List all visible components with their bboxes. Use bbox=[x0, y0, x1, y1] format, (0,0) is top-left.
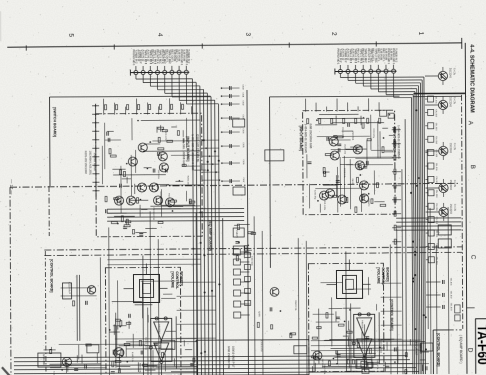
wire R2 bbox=[325, 171, 329, 173]
volume control board L opamp out bbox=[160, 363, 162, 375]
node busL 12 bbox=[192, 248, 194, 250]
capacitor CM2 bbox=[230, 94, 232, 98]
wire GV2v2 bbox=[331, 297, 333, 346]
node busR 8 bbox=[423, 314, 425, 316]
capacitor CV22 bbox=[337, 355, 341, 357]
node busL 14 bbox=[211, 290, 213, 292]
svg-text:PB OUT R 4: PB OUT R 4 bbox=[356, 48, 359, 63]
input board L pin node 2 bbox=[95, 113, 97, 115]
wire GV2v6 bbox=[348, 329, 350, 367]
wire GRv14 bbox=[339, 157, 341, 207]
resistor R35 bbox=[367, 139, 371, 141]
node L46 bbox=[149, 141, 151, 143]
wire GLh4 bbox=[171, 154, 200, 156]
connector CN307 bbox=[428, 176, 434, 182]
svg-text:4: 4 bbox=[156, 33, 163, 37]
wire drop v12 bbox=[429, 208, 432, 374]
wire GLv9 bbox=[139, 205, 141, 217]
volume control board R opamp out bbox=[363, 359, 365, 371]
capacitor CL42 bbox=[107, 132, 109, 136]
node M8 bbox=[221, 180, 223, 182]
svg-text:C600: C600 bbox=[241, 84, 243, 90]
wire GB1h2 bbox=[115, 338, 197, 340]
switch board outline top bbox=[50, 95, 211, 98]
capacitor C231 bbox=[86, 301, 88, 305]
left connector row CN101 pin 6 bbox=[170, 70, 174, 74]
wire right fan 6 run bbox=[379, 91, 415, 93]
node V21 bbox=[349, 309, 351, 311]
svg-text:BOARD]: BOARD] bbox=[385, 267, 389, 281]
svg-text:HA12017: HA12017 bbox=[361, 320, 364, 330]
left connector row CN101 pin 2 bbox=[141, 71, 145, 75]
wire GB2v1 bbox=[314, 363, 316, 372]
wire to CN301 bbox=[425, 98, 427, 100]
svg-text:CN-309: CN-309 bbox=[435, 203, 437, 211]
wire left fan-bus 1 bbox=[192, 79, 194, 375]
node M4 bbox=[221, 117, 223, 119]
node R3 bbox=[360, 174, 362, 176]
left border dash vertical bbox=[9, 187, 12, 375]
wire link hR1 bbox=[381, 282, 402, 284]
connector CNM7 bbox=[234, 312, 241, 318]
left connector row CN101 pin 1 bbox=[134, 71, 138, 75]
wire from Q301 dn bbox=[442, 81, 444, 85]
resistor V19 bbox=[126, 322, 130, 324]
wire right bus inner v2 bbox=[402, 169, 403, 374]
svg-text:R330 10k: R330 10k bbox=[138, 363, 140, 373]
node busL 6 bbox=[204, 351, 206, 353]
wire GRh9 bbox=[385, 151, 393, 153]
wire GRv12 bbox=[370, 115, 372, 150]
input board L pin tick 3 bbox=[92, 122, 99, 124]
wire drop v4 bbox=[157, 239, 160, 375]
wire right fan-bus 7 bbox=[413, 95, 414, 375]
resistor ML5 bbox=[290, 333, 292, 337]
right connector row CN201 pin 7 bbox=[384, 69, 388, 73]
wire GB1h5 bbox=[126, 341, 197, 343]
transistor Q106 bbox=[149, 183, 158, 192]
resistor V27 bbox=[312, 337, 317, 339]
right connector row CN201 pin 8 bbox=[392, 69, 396, 73]
resistor RB1 bbox=[394, 127, 396, 132]
volume control board R opamp box bbox=[354, 314, 375, 357]
node busL 11 bbox=[204, 291, 206, 293]
dash-dot control line lower bbox=[44, 252, 462, 255]
wire stub mid 7 bbox=[222, 162, 240, 164]
svg-text:AUX IN 12: AUX IN 12 bbox=[341, 48, 344, 60]
resistor L32 bbox=[167, 140, 173, 142]
connector CN304 bbox=[428, 136, 434, 142]
wire V219 bbox=[348, 321, 350, 330]
node L35 bbox=[116, 199, 118, 201]
relay RY302 bbox=[438, 239, 451, 248]
svg-text:C605: C605 bbox=[242, 142, 244, 148]
wire GRv2 bbox=[379, 131, 381, 158]
wire board link 6 bbox=[202, 179, 219, 181]
op-amp U2A bbox=[357, 318, 372, 337]
svg-text:[SWITCH BOARD]: [SWITCH BOARD] bbox=[53, 107, 57, 137]
left connector row CN101 pin 5 bbox=[163, 70, 167, 74]
wire GB2v7 bbox=[366, 337, 368, 355]
resistor RT4 bbox=[138, 105, 140, 110]
wire eq bus right h1 bbox=[396, 217, 461, 219]
wire V117 bbox=[109, 331, 119, 333]
resistor ML7 bbox=[271, 325, 273, 329]
ruler tick x=115 bbox=[113, 44, 115, 49]
wire link h2 bbox=[177, 295, 216, 297]
wire CNM2 bbox=[240, 261, 249, 263]
wire GRv6 bbox=[360, 189, 362, 212]
tone box TN2 bbox=[368, 362, 373, 367]
node L19 bbox=[126, 163, 128, 165]
wire to Q303 bbox=[425, 150, 438, 152]
svg-text:GND 806: GND 806 bbox=[42, 354, 46, 365]
node busR 14 bbox=[425, 348, 427, 350]
right board dash-dot vertical bbox=[462, 95, 463, 329]
wire GLh3 bbox=[162, 204, 195, 206]
svg-text:C103 100/16: C103 100/16 bbox=[152, 207, 154, 220]
node busL 8 bbox=[214, 150, 216, 152]
wire drop v5 bbox=[195, 212, 198, 375]
volume control board R pot lead top bbox=[348, 259, 350, 270]
wire pair left b bbox=[78, 275, 80, 341]
connector CNN5 bbox=[245, 300, 251, 305]
wire right fan 3 drop bbox=[355, 73, 357, 83]
wire bottom bus h4 bbox=[14, 368, 416, 370]
volume control board R node top2 bbox=[367, 313, 370, 316]
capacitor CB216 bbox=[365, 337, 369, 339]
svg-text:CN-310: CN-310 bbox=[435, 217, 437, 225]
dash-dot control line upper bbox=[44, 247, 462, 250]
wire left fan-bus 7 bbox=[215, 100, 216, 375]
svg-text:SUB IN 86: SUB IN 86 bbox=[379, 48, 382, 60]
wire stub into board L 4 bbox=[136, 99, 138, 115]
svg-text:CN-308: CN-308 bbox=[435, 190, 437, 198]
wire lower link right h1 bbox=[311, 339, 421, 342]
svg-text:2: 2 bbox=[330, 32, 337, 36]
svg-text:R 4.7k: R 4.7k bbox=[453, 97, 456, 105]
input board L pin node 3 bbox=[95, 122, 97, 124]
wire right fan 1 drop bbox=[339, 73, 341, 77]
wire drop v3 bbox=[149, 211, 152, 375]
node busR 11 bbox=[416, 109, 418, 111]
wire GRh13 bbox=[331, 148, 360, 150]
wire GRv3 bbox=[373, 170, 375, 194]
resistor AX9 bbox=[251, 232, 256, 234]
terminal block TB5 bbox=[421, 343, 433, 351]
resistor B111 bbox=[121, 350, 123, 355]
wire link h5 bbox=[177, 337, 216, 339]
resistor R28 bbox=[380, 204, 386, 206]
svg-text:C602: C602 bbox=[242, 100, 244, 106]
svg-text:4-4. SCHEMATIC DIAGRAM: 4-4. SCHEMATIC DIAGRAM bbox=[468, 44, 474, 113]
resistor LE10 bbox=[126, 219, 128, 225]
wire GV2h6 bbox=[343, 307, 361, 309]
resistor LE3 bbox=[133, 229, 135, 234]
wire GLv11 bbox=[130, 155, 132, 196]
wire GB1h7 bbox=[59, 343, 145, 345]
connector CNM5 bbox=[234, 290, 241, 296]
svg-text:CN-301: CN-301 bbox=[435, 96, 437, 104]
resistor RT6 bbox=[160, 104, 162, 109]
wire GV2h3 bbox=[316, 321, 340, 323]
transistor Q302 bbox=[438, 100, 447, 109]
aux switch box2 bbox=[233, 246, 244, 254]
svg-text:CN-302: CN-302 bbox=[435, 109, 437, 117]
switch block SW201 bbox=[233, 119, 245, 127]
wire R20 bbox=[328, 183, 335, 185]
wire GV2h7 bbox=[348, 288, 371, 290]
right connector row CN201 pin 4 bbox=[361, 69, 365, 73]
resistor B26 bbox=[352, 359, 354, 364]
control board L dash-dot left bbox=[44, 251, 47, 373]
wire GB2v10 bbox=[386, 341, 388, 350]
svg-text:R101 4.7k: R101 4.7k bbox=[168, 193, 170, 204]
volume control board L pot inner bbox=[139, 279, 153, 297]
volume control board L pot wiper box bbox=[143, 283, 151, 293]
connector CNM3 bbox=[233, 269, 240, 275]
ic box IC201 bbox=[62, 283, 71, 299]
resistor RB4 bbox=[394, 169, 396, 174]
scan edge shade top-left bbox=[0, 11, 2, 41]
volume control board R left rail2 bbox=[350, 303, 352, 371]
node B19 bbox=[196, 340, 198, 342]
wire right fan 5 run bbox=[371, 88, 417, 90]
wire left fan 6 run bbox=[172, 96, 211, 98]
transistor Q403 bbox=[270, 287, 279, 296]
resistor L18 bbox=[114, 198, 119, 200]
wire GRv13 bbox=[343, 156, 345, 203]
connector CN302 bbox=[428, 109, 434, 115]
wire drop v1 bbox=[99, 257, 102, 375]
volume control board R node top1 bbox=[358, 313, 361, 316]
resistor L5 bbox=[182, 164, 186, 166]
node busL 7 bbox=[200, 212, 202, 214]
resistor R44 bbox=[371, 199, 373, 204]
svg-text:C103 100/16: C103 100/16 bbox=[379, 340, 381, 353]
resistor R27 bbox=[362, 123, 364, 128]
node busL 1 bbox=[200, 242, 202, 244]
resistor L34 bbox=[120, 170, 122, 175]
wire bottom bus h2 bbox=[14, 360, 410, 362]
left connector row CN101 pin 1 stem bbox=[135, 66, 137, 70]
volume control board L pot lead top bbox=[145, 264, 147, 275]
left connector row CN101 entry stub bbox=[129, 70, 131, 76]
input board L pin tick 9 bbox=[92, 173, 99, 175]
relay driver box K1 bbox=[455, 305, 461, 313]
wire GLv14 bbox=[135, 150, 137, 173]
resistor B211 bbox=[405, 353, 407, 357]
wire board link 2 bbox=[202, 147, 219, 149]
wire GV2h2 bbox=[329, 308, 343, 310]
transistor Q203 bbox=[353, 145, 362, 154]
svg-text:CN-303: CN-303 bbox=[435, 123, 437, 131]
capacitor CR40 bbox=[338, 148, 340, 152]
capacitor CAX13 bbox=[235, 242, 239, 244]
wire to Q305 bbox=[426, 211, 439, 213]
wire from Q303 dn bbox=[442, 156, 444, 160]
wire GLh6 bbox=[152, 140, 199, 142]
left connector row CN101 pin 4 bbox=[155, 70, 159, 74]
volume control board L pot lead right bbox=[160, 287, 168, 289]
volume control board R left rail bbox=[345, 251, 348, 371]
wire eq bus right h4 bbox=[396, 229, 461, 231]
wire GB2v2 bbox=[422, 364, 424, 371]
node L4 bbox=[137, 120, 139, 122]
wire link hR3 bbox=[381, 310, 402, 312]
right connector row CN201 pin 1 stem bbox=[339, 65, 341, 69]
wire V13 bbox=[119, 353, 121, 361]
wire GB1v7 bbox=[65, 359, 67, 373]
node busR 2 bbox=[414, 251, 416, 253]
node ML8 bbox=[280, 310, 282, 312]
node board link 3 bbox=[209, 155, 211, 157]
node busR 9 bbox=[412, 278, 414, 280]
wire L14 bbox=[182, 138, 184, 143]
wire eq bus right h3 bbox=[396, 225, 461, 227]
right connector row CN201 pin 8 stem bbox=[393, 65, 395, 69]
wire power board v bbox=[196, 340, 198, 375]
resistor RB5 bbox=[394, 183, 396, 188]
volume control board L opamp box bbox=[151, 318, 172, 361]
wire drop v14 bbox=[447, 207, 450, 374]
resistor R49 bbox=[356, 177, 358, 182]
model box left line bbox=[474, 319, 476, 374]
wire GLh8 bbox=[154, 208, 181, 210]
connector CN305 bbox=[428, 150, 434, 156]
model box top line bbox=[475, 318, 486, 320]
ruler tick x=290 bbox=[288, 42, 290, 47]
connector CNM4 bbox=[233, 279, 240, 285]
resistor L26 bbox=[158, 137, 160, 142]
right channel outline vertical bbox=[269, 97, 272, 268]
wire stub into board R 6 bbox=[357, 106, 359, 111]
resistor R23 bbox=[376, 183, 378, 188]
wire GRh12 bbox=[346, 148, 367, 150]
wire to CN304 bbox=[425, 138, 427, 140]
resistor L44 bbox=[158, 148, 164, 150]
relay driver box K2 bbox=[455, 315, 461, 321]
transistor Q109 bbox=[154, 196, 163, 205]
wire GRh3 bbox=[355, 157, 392, 159]
transistor Q402 bbox=[114, 348, 124, 358]
wire right fan 7 drop bbox=[385, 73, 387, 94]
wire from Q305 dn bbox=[443, 217, 445, 221]
wire RB5 bbox=[392, 185, 401, 187]
wire GLv3 bbox=[126, 177, 128, 184]
wire GV2v5 bbox=[367, 277, 369, 295]
wire CNM1 bbox=[240, 251, 249, 253]
wire stub mid 3 bbox=[222, 103, 240, 105]
resistor RB2 bbox=[394, 141, 396, 146]
svg-text:R140 2.2k: R140 2.2k bbox=[294, 300, 296, 311]
wire right fan-bus 6 bbox=[415, 92, 416, 374]
connector CNN3 bbox=[244, 276, 250, 281]
wire drop v10 bbox=[389, 245, 392, 375]
node busL 10 bbox=[218, 283, 220, 285]
op-amp U1B bbox=[154, 343, 169, 362]
connector CN301 bbox=[428, 96, 434, 102]
transistor Q202 bbox=[330, 151, 339, 160]
wire GB2v6 bbox=[313, 361, 315, 372]
wire GLv2 bbox=[156, 184, 158, 190]
capacitor CM5 bbox=[230, 130, 232, 134]
wire from Q305 up bbox=[443, 203, 445, 207]
wire GRh10 bbox=[342, 156, 393, 158]
node V11 bbox=[109, 329, 111, 331]
wire to CN310 bbox=[426, 219, 428, 221]
wire k203 h1 bbox=[61, 287, 92, 289]
svg-text:BOARD]: BOARD] bbox=[179, 271, 183, 285]
wire LE6 bbox=[145, 227, 156, 229]
wire CNM4 bbox=[240, 281, 249, 283]
node V215 bbox=[344, 321, 346, 323]
node busR 13 bbox=[412, 281, 414, 283]
svg-text:0406 2SD880 Y09: 0406 2SD880 Y09 bbox=[227, 346, 231, 368]
input board L pin node 4 bbox=[95, 130, 97, 132]
wire left fan 1 run bbox=[136, 78, 192, 80]
right connector row CN201 pin 5 bbox=[369, 69, 373, 73]
wire B219 bbox=[363, 338, 370, 340]
left connector row CN101 pin 7 bbox=[177, 70, 181, 74]
wire board link 5 bbox=[202, 171, 219, 173]
wire from Q303 up bbox=[442, 142, 444, 146]
wire eq bus left h1 bbox=[107, 207, 244, 210]
wire bottom bus h5 bbox=[14, 372, 419, 374]
svg-text:D: D bbox=[466, 348, 473, 353]
capacitor CLE4 bbox=[139, 234, 143, 236]
volume control board R pot lead right bbox=[363, 283, 371, 285]
svg-text:2SA970: 2SA970 bbox=[367, 198, 370, 207]
wire right fan-bus 2 bbox=[422, 80, 424, 374]
wire GLh16 bbox=[105, 139, 121, 141]
wire left fan 3 drop bbox=[149, 74, 151, 86]
wire GV1v4 bbox=[132, 334, 134, 348]
wire right fan 4 drop bbox=[362, 73, 364, 86]
wire left fan 4 run bbox=[158, 89, 204, 91]
resistor B110 bbox=[193, 358, 195, 362]
resistor RT1 bbox=[105, 105, 107, 110]
vertical trunk x247 bbox=[247, 90, 248, 375]
svg-text:C603: C603 bbox=[242, 114, 244, 120]
wire GV1h6 bbox=[135, 304, 153, 306]
resistor L20 bbox=[123, 171, 125, 176]
left connector row CN101 pin 3 bbox=[148, 70, 152, 74]
input board L pin node 1 bbox=[95, 105, 97, 107]
wire left fan 4 drop bbox=[157, 74, 159, 89]
connector CNN1 bbox=[244, 252, 250, 257]
right channel outline top bbox=[270, 95, 400, 98]
wire GRh15 bbox=[317, 117, 364, 119]
left connector row CN101 pin 2 stem bbox=[142, 66, 144, 70]
node busR 7 bbox=[425, 316, 427, 318]
capacitor CB217 bbox=[394, 347, 396, 351]
volume control board R pot outer bbox=[336, 270, 362, 298]
wire GV1h3 bbox=[163, 293, 172, 295]
wire GLv12 bbox=[182, 130, 184, 137]
right connector row CN201 pin 3 bbox=[354, 69, 358, 73]
node M5 bbox=[221, 131, 223, 133]
wire left fan 7 run bbox=[179, 99, 214, 101]
wire L52 bbox=[134, 184, 136, 194]
connector CN309 bbox=[428, 203, 434, 209]
right connector row CN201 pin 2 bbox=[346, 69, 350, 73]
right connector row CN201 pin 3 stem bbox=[355, 65, 357, 69]
node board link 2 bbox=[205, 147, 207, 149]
wire B122 bbox=[44, 349, 56, 351]
wire drop v13 bbox=[435, 245, 438, 374]
wire L31 bbox=[112, 168, 125, 170]
